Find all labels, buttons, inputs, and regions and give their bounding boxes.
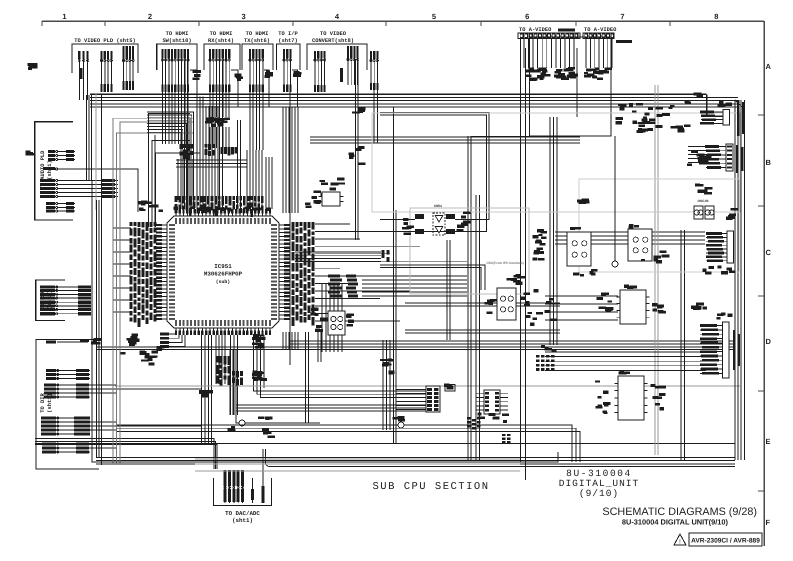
svg-text:TO A-VIDEO: TO A-VIDEO — [519, 27, 552, 33]
pads right of IC967 — [650, 384, 666, 411]
svg-text:TO VIDEO: TO VIDEO — [320, 31, 347, 37]
labels on bundle left of TP951 — [380, 359, 394, 375]
resistor stripes group b — [502, 434, 510, 443]
wire bundle SW continues down — [162, 92, 188, 144]
wire bundle RX lower — [210, 127, 229, 148]
connector CN953 right B — [705, 144, 733, 171]
net labels right of convert — [352, 108, 365, 114]
test point TP951 — [239, 420, 245, 426]
wire trunk hdmisw deep — [185, 60, 188, 209]
wires IC951 left pins to trunk — [113, 228, 131, 312]
parts left low2 — [140, 346, 165, 362]
connector pin DAC aux1 — [251, 478, 254, 503]
wire bus mid extra — [290, 341, 735, 344]
label IC965 — [624, 285, 637, 289]
pads left of IC967 — [595, 380, 611, 414]
wire rows with labels x330 — [328, 275, 467, 298]
net label vertical — [340, 68, 343, 82]
pads trio B — [695, 184, 712, 195]
net labels below IC col2 — [232, 371, 243, 386]
pin labels right of IC951 — [292, 222, 315, 326]
parts near A-VIDEO right low — [615, 103, 674, 124]
svg-text:IC951: IC951 — [214, 263, 232, 270]
svg-text:TO HDMI: TO HDMI — [166, 31, 189, 37]
wire bend bus right — [735, 100, 745, 455]
wire drops from top bus a — [197, 96, 203, 209]
svg-text:TO VIDEO PLD (sht5): TO VIDEO PLD (sht5) — [74, 38, 135, 44]
wires TO A-VIDEO left — [524, 39, 574, 68]
net labels above bus mid — [349, 146, 366, 165]
svg-text:(9/10): (9/10) — [579, 488, 619, 499]
wire corner to trunk a — [149, 114, 190, 228]
pad labels under A-VIDEO right — [584, 68, 612, 81]
wire bus bottom long2 — [96, 458, 735, 465]
pad cluster below-IC dark col — [252, 334, 265, 349]
wire trunk center bundle — [468, 136, 471, 460]
labels above CN955 — [716, 312, 732, 319]
svg-text:B: B — [766, 158, 772, 167]
IC963 8-pin block — [476, 390, 508, 414]
net label PLDRST — [43, 167, 55, 170]
wire heavy pair into TR section a — [380, 265, 485, 290]
wire trunk right of IC low — [283, 332, 298, 350]
wires TO AUDIO PLD g2 — [40, 179, 118, 198]
wire elbow right top heavy — [707, 94, 724, 116]
svg-text:6: 6 — [525, 12, 529, 21]
svg-text:SUB CPU SECTION: SUB CPU SECTION — [372, 481, 489, 493]
net label A3-3V — [684, 100, 691, 104]
connector pins TO HDMI TX — [249, 49, 264, 92]
wires into CN955 — [545, 352, 706, 370]
wire fan-out below IC951 to left — [160, 333, 185, 348]
pads below-left of IC — [127, 333, 140, 346]
test point TR circle — [398, 422, 404, 428]
boxed label TR — [445, 385, 455, 392]
svg-text:TO DIR: TO DIR — [40, 393, 46, 413]
section outline mid (faint) — [318, 435, 688, 535]
label TRST — [228, 426, 236, 432]
connector CN955 right D — [700, 322, 729, 378]
pads dark pair mid — [536, 229, 547, 245]
parts under IC963 — [477, 413, 509, 423]
svg-text:(sub): (sub) — [216, 279, 231, 285]
connector pins TO HDMI SW — [161, 49, 189, 92]
wires right from below-IC bundle — [254, 388, 427, 397]
label above CN952 — [718, 101, 732, 107]
wire trunk right of IC — [283, 107, 298, 213]
svg-text:TO A-VIDEO: TO A-VIDEO — [584, 27, 617, 33]
svg-text:2: 2 — [148, 12, 152, 21]
tiny labels row b — [671, 124, 691, 132]
resistor cluster HDMI RX — [235, 74, 243, 81]
wire bus gray mid — [115, 385, 740, 387]
wire segment inner — [154, 135, 156, 227]
wire HDMI RX aux — [231, 70, 238, 107]
wires TO AUDIO PLD g3 — [46, 202, 75, 212]
pin numbers row above IC — [173, 206, 271, 211]
test point circle C — [612, 261, 618, 267]
pin labels left of IC951 — [130, 222, 157, 327]
wire trunk right3 — [576, 48, 578, 117]
wires TO AUDIO PLD g1 — [48, 150, 75, 161]
labels far right C — [641, 250, 670, 263]
connector pins TO VIDEO PLD g3 — [122, 46, 134, 90]
svg-text:RX(sht4): RX(sht4) — [208, 38, 234, 44]
connector strip TO A-VIDEO right — [583, 33, 615, 39]
connector bracket TO HDMI RX — [204, 44, 240, 70]
svg-text:F: F — [766, 518, 771, 527]
wire bus third — [310, 137, 580, 143]
wire bundle RX continues down — [210, 92, 229, 117]
wire DIR rows continue far — [90, 389, 201, 426]
svg-text:M30626FHPGP: M30626FHPGP — [204, 271, 243, 278]
svg-text:TO HDMI: TO HDMI — [246, 31, 269, 37]
svg-text:AVR-2309CI / AVR-889: AVR-2309CI / AVR-889 — [691, 538, 760, 545]
wires TO A-VIDEO right — [586, 39, 612, 68]
wire long rows lower — [236, 405, 426, 411]
wire trunk left a — [86, 95, 91, 180]
pad cluster below-IC dark col2 — [252, 371, 267, 382]
wire pair low center2 — [318, 332, 321, 362]
wire trunk mid b — [395, 210, 397, 444]
svg-text:OSC.IN: OSC.IN — [698, 199, 710, 203]
pad labels under A-VIDEO left a — [526, 68, 551, 81]
labels above resistor array — [541, 345, 557, 351]
wire DIR rows continue — [90, 385, 117, 448]
resistor stripes group a — [467, 417, 480, 429]
net labels on IC-top wires row1 — [180, 144, 215, 159]
wire trunk avideo main — [520, 38, 522, 462]
wires from IC951 right pins — [315, 224, 467, 321]
wire verticals below IC a — [202, 335, 212, 445]
wire drops from top bus b — [206, 106, 218, 209]
capacitor group above-left of IC951 — [138, 200, 163, 212]
crystal X951 oscillator circuit — [415, 213, 455, 235]
connector pin DAC aux2 — [262, 449, 265, 503]
pads right of IC965 — [652, 303, 666, 313]
wire bus top — [90, 98, 738, 108]
model box AVR-2309CI / AVR-889 — [689, 533, 762, 546]
svg-text:3: 3 — [242, 12, 246, 21]
wire TP951 right — [245, 422, 320, 424]
label TP box — [444, 384, 452, 388]
svg-text:OSC(From IPU Interface): OSC(From IPU Interface) — [486, 261, 523, 265]
IC975 small block — [319, 192, 344, 206]
connector bracket TO DAC/ADC — [214, 478, 272, 506]
svg-text:D: D — [766, 337, 772, 346]
wire trunk right mid — [550, 117, 557, 345]
connector pins TO VIDEO PLD g1 — [78, 51, 89, 100]
tiny labels row a — [636, 124, 662, 133]
connector bracket TO I/P — [277, 44, 301, 70]
wire verticals below IC b — [216, 335, 225, 384]
warning triangle — [674, 534, 686, 545]
wire bundle left of TP951 — [383, 340, 390, 430]
wire right rows2 — [405, 330, 560, 333]
wire HDMI TX aux — [264, 70, 269, 107]
wire trunk right edge bus — [735, 100, 745, 460]
wire trunk convert down — [356, 60, 359, 240]
connector bracket TO VIDEO CONVERT — [307, 44, 367, 70]
wire loop outer left — [92, 180, 558, 462]
wire heavy pair into TR section b — [380, 268, 481, 291]
wires TO DIR g2 — [44, 384, 90, 399]
part number text — [558, 29, 575, 32]
svg-text:1: 1 — [62, 12, 66, 21]
label IC992 — [629, 224, 639, 229]
transistor pair B low a — [694, 206, 703, 219]
wire from TP951 — [236, 415, 239, 423]
net labels DIR top — [46, 341, 56, 344]
wire bus mid — [96, 347, 735, 350]
wire right rows — [405, 303, 560, 306]
wire net rows into labels — [295, 252, 381, 262]
wire verticals right-of-IC turning down — [322, 283, 342, 352]
connector pins TO VIDEO CONVERT g2 — [347, 46, 359, 85]
resistor cluster HDMI TX — [265, 71, 273, 78]
pads below-left of IC b — [91, 338, 102, 345]
IC992 quad buffer — [628, 229, 652, 261]
wires into CN953 — [688, 147, 714, 163]
svg-text:E: E — [766, 437, 771, 446]
svg-text:TX(sht6): TX(sht6) — [244, 38, 270, 44]
svg-text:SCHEMATIC DIAGRAMS (9/28): SCHEMATIC DIAGRAMS (9/28) — [602, 506, 757, 518]
pads right of Q963 — [346, 313, 354, 326]
wire pair with elbows bottom-right — [116, 425, 580, 462]
vertical label right D — [733, 330, 736, 370]
IC967 shift register — [615, 376, 648, 420]
wire bus gray low — [195, 459, 520, 471]
wire elbow center a — [380, 113, 489, 220]
connector pins aux bundle — [370, 51, 379, 90]
wire crystal bottom heavy — [380, 231, 415, 233]
wires TO DIR g4 — [42, 443, 90, 454]
wire verticals below IC c — [231, 335, 238, 415]
labels around Q963 — [311, 308, 328, 332]
svg-text:5: 5 — [432, 12, 436, 21]
wire verticals below IC d — [254, 335, 265, 388]
label near TR circle — [393, 416, 405, 422]
wire trunk mid a — [393, 107, 395, 444]
connector bracket TO AUDIO PLD — [35, 122, 73, 220]
net labels band above IC — [175, 196, 264, 217]
labels right mid C col — [532, 235, 544, 260]
wire elbow center b — [380, 115, 487, 232]
transistor array Q962 — [497, 288, 516, 320]
wire trunk center small — [447, 240, 450, 340]
connector bracket TO HDMI SW — [157, 44, 197, 70]
wire trunk center low — [230, 350, 236, 415]
label below IC991 — [573, 269, 598, 276]
svg-text:7: 7 — [620, 12, 624, 21]
net label vertical — [80, 68, 83, 79]
transistor circuit Q961 area — [521, 289, 557, 326]
wire drops pair — [238, 120, 241, 209]
transistor pair B low b — [705, 206, 714, 219]
net labels mid rows — [382, 250, 390, 262]
wire HDMI SW aux — [190, 70, 197, 107]
wire trunk left c — [100, 95, 102, 465]
wire trunk gray right pair — [655, 85, 658, 455]
label IC991 — [570, 227, 581, 230]
net labels on IC-top wires row2 — [221, 147, 238, 155]
wire I/P aux — [292, 70, 298, 107]
vertical label right B — [736, 145, 739, 173]
svg-text:C: C — [766, 248, 772, 257]
pad labels under A-VIDEO left b — [554, 67, 578, 80]
wire bottom-left triple with bend — [35, 439, 217, 469]
svg-text:(sht7): (sht7) — [278, 38, 297, 44]
wire trunk avideo2 — [525, 48, 527, 480]
wire gray elbows left — [113, 118, 193, 464]
resistor cluster HDMI SW — [192, 70, 200, 80]
pads left of IC965 — [596, 293, 613, 312]
wire trunk center bundle2 — [476, 195, 480, 460]
wire DIR top net — [57, 341, 88, 343]
wire bundle TX continues down — [250, 92, 263, 150]
wire trunk hdmirx deep — [220, 60, 223, 209]
capacitor below TP wire — [262, 429, 275, 438]
resistor cluster I/P — [293, 71, 301, 77]
wire bus mid C heavy — [555, 232, 705, 244]
wire trunk left gray — [95, 94, 97, 210]
resistor array D area — [536, 355, 555, 371]
section outline C (faint) — [579, 179, 739, 272]
label IC967 — [619, 370, 630, 374]
pad cluster upper — [205, 117, 230, 127]
svg-text:SW(sht10): SW(sht10) — [162, 38, 191, 44]
pin header TP951 strip — [396, 386, 440, 412]
section outline upper (faint) — [372, 113, 740, 212]
parts IC975 below convert — [305, 177, 345, 207]
wire trunk right pair black — [681, 230, 685, 460]
IC965 shift register — [617, 290, 650, 324]
wires into IC965 from left — [545, 296, 618, 320]
svg-text:TO DAC/ADC: TO DAC/ADC — [225, 510, 260, 517]
transistor TR small parts — [507, 274, 525, 285]
wire trunk left b — [97, 200, 100, 458]
net labels below IC col1 — [216, 356, 231, 386]
connector pins TO VIDEO CONVERT g1 — [314, 51, 326, 92]
wire corner center c — [471, 136, 560, 138]
svg-text:X951: X951 — [434, 204, 442, 209]
svg-text:8: 8 — [714, 12, 718, 21]
net labels left edge mid — [25, 150, 34, 155]
svg-text:TO I/P: TO I/P — [278, 31, 297, 37]
labels left of Q962 — [485, 299, 497, 314]
net label left row small — [27, 63, 37, 70]
section outline OSC (faint) — [410, 208, 529, 294]
svg-text:A: A — [766, 62, 772, 71]
connector bracket TO VIDEO PLD — [72, 44, 138, 73]
svg-text:CONVERT(sht8): CONVERT(sht8) — [312, 38, 354, 44]
resistor label right of TP — [258, 416, 273, 419]
wire elbows bus-left into IC top — [147, 112, 194, 209]
connector bracket TO HDMI TX — [242, 44, 273, 70]
wire corner to trunk c — [156, 153, 201, 227]
wire bus top first heavy — [90, 93, 707, 95]
wire loop box A-VIDEO — [530, 37, 612, 136]
parts left low — [120, 350, 158, 365]
wire bundle SW lower — [178, 159, 193, 200]
connector pins TO VIDEO PLD g2 — [100, 51, 112, 92]
parts B row right — [687, 150, 711, 166]
connector pins TO I/P — [283, 49, 292, 92]
svg-text:TO HDMI: TO HDMI — [210, 31, 233, 37]
label under IC963 — [492, 417, 499, 420]
net labels right top — [693, 93, 703, 98]
connector bracket TO DSP — [36, 280, 65, 321]
pads right of B pair — [726, 208, 738, 220]
caps above CN955 — [691, 303, 707, 311]
svg-text:8U-310004 DIGITAL UNIT(9/10): 8U-310004 DIGITAL UNIT(9/10) — [622, 518, 729, 527]
connector bracket TO DIR — [36, 339, 99, 469]
connector CN952 supply right A/B — [700, 110, 730, 126]
pad cluster below-IC a — [199, 390, 213, 397]
wire bus bottom long — [35, 443, 735, 445]
wire corner to trunk b — [152, 141, 190, 228]
wires TO DIR g3 — [41, 417, 90, 436]
transistor array Q963 — [328, 311, 345, 335]
wires TO DIR g1 — [46, 369, 90, 380]
connector pins TO HDMI RX — [209, 49, 230, 92]
svg-text:(sht1): (sht1) — [232, 517, 253, 524]
wires TO DSP — [40, 285, 91, 315]
wire drops from gray bus — [247, 150, 262, 209]
wire vertical x290 long — [289, 92, 291, 365]
wire crystal top heavy — [380, 219, 415, 221]
part number text — [616, 40, 632, 43]
wire to test point C — [614, 136, 616, 261]
label under CN954 — [702, 265, 735, 274]
connector strip TO A-VIDEO left — [518, 33, 580, 39]
wire drops right set — [266, 157, 272, 209]
IC991 quad buffer — [567, 232, 591, 266]
wire pair low center — [306, 332, 309, 423]
connector CN954 right C2 — [706, 231, 734, 263]
wire PLDRST — [57, 169, 138, 212]
net labels A5-5V — [577, 199, 590, 205]
wire bus gray upper — [176, 160, 247, 167]
labels XTAL right — [456, 212, 470, 232]
IC951 M30626FHPGP sub CPU — [156, 209, 290, 335]
labels XTAL left — [402, 218, 414, 235]
wire aux bundle continues — [374, 90, 377, 143]
vertical label TO POWER SUPPLY UNIT — [737, 100, 740, 136]
wire loop rounded corner bottom — [265, 449, 735, 467]
connector pins TO DAC/ADC — [224, 470, 245, 503]
